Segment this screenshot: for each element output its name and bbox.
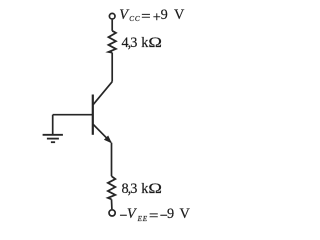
wire: diagonal to collector [93, 82, 112, 105]
svg-text:VCC=+9V: VCC=+9V [119, 7, 185, 25]
wire: R1 bottom vertical segment [111, 53, 113, 82]
svg-text:4,3kΩ: 4,3kΩ [122, 35, 163, 51]
terminal VCC (top circle) [109, 13, 115, 19]
svg-text:8,3kΩ: 8,3kΩ [122, 181, 163, 197]
ground vertical lead [52, 115, 54, 135]
base bar [92, 95, 94, 135]
wire: base lead to ground corner [53, 114, 93, 116]
wire: R2 bottom to VEE terminal [111, 199, 113, 209]
emitter line [93, 124, 111, 142]
resistor R2 (8,3 kOhm zigzag) [108, 176, 115, 199]
resistor R1 (4,3 kOhm zigzag) [109, 31, 116, 53]
ground bar 2 [47, 138, 59, 140]
ground [43, 115, 63, 143]
wire: VCC terminal to R1 top [111, 20, 113, 31]
wire: emitter to R2 top [111, 143, 113, 177]
ground bar 1 [43, 134, 63, 136]
transistor Q1 [93, 95, 112, 143]
ground bar 3 [51, 141, 55, 143]
emitter arrowhead [104, 136, 111, 143]
svg-text:−VEE=−9V: −VEE=−9V [119, 206, 190, 224]
terminal -VEE (bottom circle) [109, 210, 115, 216]
